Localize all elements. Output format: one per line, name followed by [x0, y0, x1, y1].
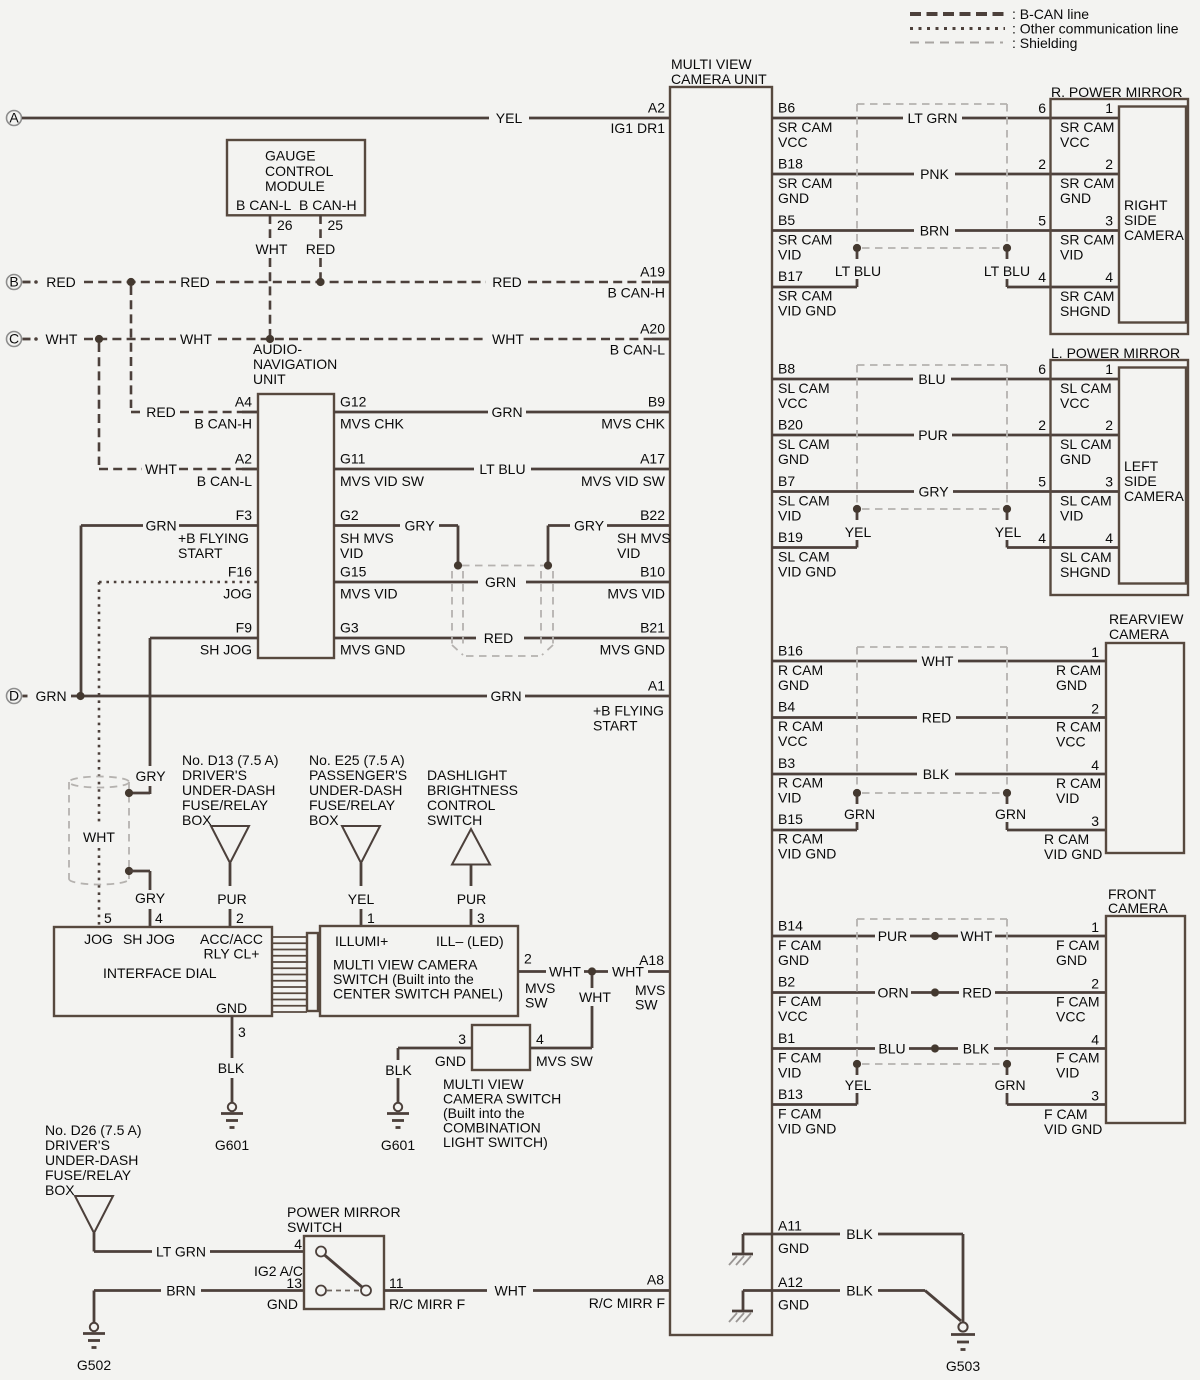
- fuse D13 text: [182, 752, 279, 828]
- svg-text:MVS SW: MVS SW: [536, 1053, 594, 1069]
- svg-text:F CAM: F CAM: [1056, 937, 1100, 953]
- svg-text:A20: A20: [640, 321, 665, 337]
- svg-text:1: 1: [1091, 644, 1099, 660]
- svg-text:SR CAM: SR CAM: [778, 175, 832, 191]
- svg-text:BLK: BLK: [218, 1060, 245, 1076]
- ground G502: [77, 1323, 111, 1373]
- svg-text:GRN: GRN: [35, 688, 66, 704]
- front pin numbers: [1091, 919, 1099, 1104]
- svg-text:G15: G15: [340, 564, 367, 580]
- ground G601 interface dial: [215, 1103, 249, 1153]
- svg-text:MODULE: MODULE: [265, 178, 325, 194]
- wire B7 GRY: [772, 484, 1119, 500]
- wire B5 BRN: [772, 223, 1119, 239]
- pin A18 MVS SW: [635, 952, 665, 1013]
- svg-text:BLK: BLK: [385, 1062, 412, 1078]
- pin G15 label: [340, 564, 398, 602]
- wire B22 shield drain GRY: [548, 518, 670, 563]
- wire C WHT B-CAN: [23, 331, 671, 347]
- svg-text:GRN: GRN: [485, 574, 516, 590]
- svg-text:WHT: WHT: [492, 331, 524, 347]
- svg-text:MULTI VIEW: MULTI VIEW: [671, 56, 752, 72]
- comb switch text: [443, 1076, 561, 1150]
- svg-text:A18: A18: [639, 952, 664, 968]
- svg-text:B3: B3: [778, 755, 795, 771]
- svg-text:RED: RED: [146, 404, 176, 420]
- junction B x131: [127, 278, 135, 286]
- svg-text:VID: VID: [778, 246, 801, 262]
- svg-text:A17: A17: [640, 451, 665, 467]
- svg-text:VCC: VCC: [778, 1008, 808, 1024]
- pins B14 B2 B1 B13 labels: [778, 918, 836, 1137]
- svg-text:WHT: WHT: [256, 241, 288, 257]
- svg-text:B8: B8: [778, 361, 795, 377]
- pin 5 number: [104, 910, 112, 926]
- pin B22 SH MVS VID: [617, 507, 671, 561]
- svg-text:VCC: VCC: [778, 395, 808, 411]
- svg-text:VID GND: VID GND: [778, 846, 836, 862]
- junction shield RV left: [853, 789, 861, 797]
- pin B10 MVS VID: [607, 564, 665, 602]
- pin G2 label: [340, 507, 394, 561]
- splice B2: [931, 988, 939, 996]
- svg-text:B18: B18: [778, 156, 803, 172]
- svg-text:5: 5: [104, 910, 112, 926]
- wire BRN to G502: [94, 1283, 304, 1324]
- svg-text:WHT: WHT: [549, 964, 581, 980]
- svg-text:R. POWER MIRROR: R. POWER MIRROR: [1051, 84, 1182, 100]
- wire B14 PUR-WHT: [772, 928, 1106, 944]
- junction shield left: [454, 561, 462, 569]
- junction D x80: [76, 692, 84, 700]
- svg-text:MVS VID: MVS VID: [607, 586, 665, 602]
- fuse D26 text: [45, 1122, 142, 1198]
- svg-text:SR CAM: SR CAM: [1060, 175, 1114, 191]
- svg-text:BLK: BLK: [963, 1041, 990, 1057]
- svg-text:B17: B17: [778, 268, 803, 284]
- svg-text:UNDER-DASH: UNDER-DASH: [309, 782, 402, 798]
- svg-text:R CAM: R CAM: [778, 831, 823, 847]
- svg-text:CAMERA: CAMERA: [1124, 488, 1185, 504]
- wire A YEL to A2: [22, 110, 670, 126]
- multi view camera unit box: [670, 87, 772, 1335]
- svg-text:3: 3: [1105, 213, 1113, 229]
- switch contact pin11: [361, 1286, 371, 1296]
- junction shield F right: [1003, 1060, 1011, 1068]
- splice B14: [931, 932, 939, 940]
- wire F pin3 GRN: [994, 1068, 1106, 1105]
- wire RV pin3 GRN: [995, 797, 1106, 830]
- svg-text:1: 1: [1091, 919, 1099, 935]
- pin 4 IG2 A/C labels: [254, 1236, 303, 1279]
- pin G11 label: [340, 451, 425, 490]
- svg-text:RLY CL+: RLY CL+: [204, 946, 260, 962]
- svg-text:PUR: PUR: [217, 891, 247, 907]
- svg-text:No. D13 (7.5 A): No. D13 (7.5 A): [182, 752, 279, 768]
- svg-text:GRN: GRN: [844, 806, 875, 822]
- svg-text:B5: B5: [778, 212, 795, 228]
- left side camera pin numbers: [1105, 361, 1113, 546]
- svg-text:GRY: GRY: [135, 768, 166, 784]
- svg-text:G2: G2: [340, 507, 359, 523]
- multi view camera unit label: [671, 56, 767, 87]
- front camera title: [1108, 886, 1169, 916]
- pins B8 B20 B7 B19 labels: [778, 361, 836, 580]
- svg-text:WHT: WHT: [83, 829, 115, 845]
- svg-text:GND: GND: [1056, 952, 1087, 968]
- svg-text:SH MVS: SH MVS: [340, 530, 394, 546]
- svg-text:R CAM: R CAM: [1056, 662, 1101, 678]
- pin 4 number: [155, 910, 163, 926]
- svg-text:LIGHT SWITCH): LIGHT SWITCH): [443, 1134, 548, 1150]
- svg-text:R/C MIRR F: R/C MIRR F: [589, 1295, 665, 1311]
- junction shield F left: [853, 1060, 861, 1068]
- pin A4 label: [194, 394, 252, 432]
- interface dial GND pin 3 wire BLK: [218, 1016, 246, 1103]
- svg-text:VID: VID: [1056, 790, 1079, 806]
- svg-text:26: 26: [277, 217, 293, 233]
- svg-text:FUSE/RELAY: FUSE/RELAY: [182, 797, 269, 813]
- wire B CAN-L drop x99 WHT: [99, 343, 258, 477]
- svg-text:SL CAM: SL CAM: [1060, 380, 1112, 396]
- wire B3 BLK: [772, 766, 1106, 782]
- svg-text:GND: GND: [778, 190, 809, 206]
- svg-text:B CAN-H: B CAN-H: [194, 416, 252, 432]
- svg-text:START: START: [178, 545, 223, 561]
- gauge pin 26 WHT dashed wire: [256, 215, 293, 335]
- svg-text:BLK: BLK: [923, 766, 950, 782]
- svg-text:F16: F16: [228, 564, 252, 580]
- svg-text:BLK: BLK: [846, 1283, 873, 1299]
- svg-text:2: 2: [1105, 417, 1113, 433]
- svg-text:SR CAM: SR CAM: [778, 288, 832, 304]
- svg-text:GRN: GRN: [490, 688, 521, 704]
- svg-text:YEL: YEL: [995, 524, 1022, 540]
- svg-text:B14: B14: [778, 918, 803, 934]
- svg-text:F9: F9: [236, 620, 253, 636]
- junction shield L right: [1003, 505, 1011, 513]
- rearview camera box: [1106, 643, 1184, 853]
- audio-navigation unit label: [253, 341, 337, 387]
- power mirror switch box: [304, 1236, 384, 1309]
- wire pin11 WHT to A8: [384, 1283, 670, 1299]
- svg-text:GND: GND: [778, 677, 809, 693]
- wire F9 SH JOG: [128, 638, 258, 794]
- svg-text:VCC: VCC: [1060, 395, 1090, 411]
- connector hatch: [272, 933, 318, 1012]
- chassis ground A12: [729, 1311, 753, 1322]
- svg-text:G3: G3: [340, 620, 359, 636]
- svg-text:GRY: GRY: [574, 518, 605, 534]
- rearview camera title: [1109, 611, 1184, 642]
- svg-text:PUR: PUR: [457, 891, 487, 907]
- svg-text:1: 1: [367, 910, 375, 926]
- wire R mirror pin4 LT BLU: [984, 252, 1119, 287]
- svg-text:B13: B13: [778, 1086, 803, 1102]
- svg-text:LEFT: LEFT: [1124, 458, 1159, 474]
- svg-text:BLU: BLU: [878, 1041, 905, 1057]
- legend B-CAN line sample: [910, 6, 1089, 22]
- junction shield right: [544, 561, 552, 569]
- svg-text:VID: VID: [778, 1064, 801, 1080]
- svg-text:B9: B9: [648, 394, 665, 410]
- wire B4 RED: [772, 710, 1106, 726]
- svg-text:UNDER-DASH: UNDER-DASH: [182, 782, 275, 798]
- svg-text:YEL: YEL: [845, 1077, 872, 1093]
- svg-text:GRY: GRY: [404, 518, 435, 534]
- pin F3 label: [178, 507, 252, 561]
- chassis ground A11: [729, 1254, 753, 1265]
- wire B20 PUR: [772, 427, 1119, 443]
- svg-text:WHT: WHT: [46, 331, 78, 347]
- svg-text:GND: GND: [216, 1000, 247, 1016]
- gauge control module box: [227, 140, 365, 215]
- junction shield R left: [853, 244, 861, 252]
- svg-text:L. POWER MIRROR: L. POWER MIRROR: [1051, 345, 1180, 361]
- node B: [7, 274, 22, 290]
- svg-text:1: 1: [1105, 100, 1113, 116]
- svg-text:DRIVER'S: DRIVER'S: [182, 767, 247, 783]
- svg-text:F CAM: F CAM: [1056, 1050, 1100, 1066]
- svg-text:BOX: BOX: [182, 812, 212, 828]
- svg-text:WHT: WHT: [145, 461, 177, 477]
- svg-text:RED: RED: [306, 241, 336, 257]
- right side camera pin numbers: [1105, 100, 1113, 285]
- svg-text:4: 4: [1105, 269, 1113, 285]
- svg-text:DRIVER'S: DRIVER'S: [45, 1137, 110, 1153]
- svg-text:WHT: WHT: [922, 653, 954, 669]
- wire B1 BLU-BLK: [772, 1041, 1106, 1057]
- svg-text:GRY: GRY: [135, 890, 166, 906]
- svg-text:FUSE/RELAY: FUSE/RELAY: [45, 1167, 132, 1183]
- node C: [7, 331, 22, 347]
- svg-text:B CAN-H: B CAN-H: [299, 197, 357, 213]
- svg-text:VID GND: VID GND: [1044, 846, 1102, 862]
- svg-text:F CAM: F CAM: [778, 937, 822, 953]
- svg-text:B CAN-H: B CAN-H: [607, 285, 665, 301]
- svg-text:VID GND: VID GND: [778, 564, 836, 580]
- svg-text:3: 3: [1091, 813, 1099, 829]
- pin A12 GND wire BLK: [743, 1274, 925, 1313]
- svg-text:VID GND: VID GND: [778, 303, 836, 319]
- svg-text:CENTER SWITCH PANEL): CENTER SWITCH PANEL): [333, 986, 503, 1002]
- switch contact pin4: [316, 1247, 326, 1257]
- svg-text:VCC: VCC: [1056, 1009, 1086, 1025]
- R mirror pin texts: [1060, 119, 1114, 319]
- svg-text:4: 4: [1038, 269, 1046, 285]
- pin A11 GND wire BLK: [743, 1218, 963, 1257]
- junction B x320: [316, 278, 324, 286]
- wire D GRN to A1: [23, 688, 671, 704]
- svg-text:CONTROL: CONTROL: [427, 797, 496, 813]
- svg-text:DASHLIGHT: DASHLIGHT: [427, 767, 508, 783]
- wire B18 PNK: [772, 166, 1119, 182]
- svg-text:GND: GND: [778, 1240, 809, 1256]
- svg-text:FUSE/RELAY: FUSE/RELAY: [309, 797, 396, 813]
- svg-text:GRN: GRN: [491, 404, 522, 420]
- pin 13 GND labels: [267, 1275, 302, 1312]
- svg-text:G601: G601: [215, 1137, 249, 1153]
- svg-text:3: 3: [238, 1024, 246, 1040]
- svg-text:POWER MIRROR: POWER MIRROR: [287, 1204, 401, 1220]
- svg-text:R CAM: R CAM: [1044, 831, 1089, 847]
- svg-text:R CAM: R CAM: [1056, 719, 1101, 735]
- junction cylinder bottom GRY: [125, 867, 133, 875]
- wire D26 LT GRN: [94, 1233, 304, 1260]
- svg-text:GRN: GRN: [994, 1077, 1025, 1093]
- node D: [7, 688, 22, 704]
- fuse E25 symbol: [342, 826, 380, 863]
- svg-text:A2: A2: [648, 100, 665, 116]
- svg-text:VID GND: VID GND: [1044, 1121, 1102, 1137]
- wire L mirror pin4 YEL: [995, 513, 1119, 548]
- comb switch pin 3 wire: [385, 1031, 472, 1103]
- svg-text:BOX: BOX: [45, 1182, 75, 1198]
- pin A2 label: [197, 451, 252, 490]
- svg-text:GND: GND: [778, 1297, 809, 1313]
- svg-text:WHT: WHT: [579, 989, 611, 1005]
- svg-text:RED: RED: [180, 274, 210, 290]
- svg-text:3: 3: [458, 1031, 466, 1047]
- wire F16 JOG dotted: [99, 582, 258, 927]
- pin A1 +B FLYING START: [593, 678, 665, 734]
- svg-text:A8: A8: [647, 1272, 664, 1288]
- svg-text:3: 3: [1105, 474, 1113, 490]
- svg-text:3: 3: [477, 910, 485, 926]
- svg-text:VID: VID: [1060, 508, 1083, 524]
- junction C x99: [95, 335, 103, 343]
- interface dial box: [54, 927, 272, 1016]
- svg-text:RED: RED: [484, 630, 514, 646]
- svg-text:2: 2: [1091, 976, 1099, 992]
- svg-text:B4: B4: [778, 699, 795, 715]
- svg-text:BRN: BRN: [166, 1283, 196, 1299]
- wire WHT down to comb switch: [579, 975, 611, 1048]
- svg-text:BRIGHTNESS: BRIGHTNESS: [427, 782, 518, 798]
- svg-text:GRN: GRN: [145, 518, 176, 534]
- pin 11 labels: [389, 1275, 465, 1312]
- svg-text:PNK: PNK: [920, 166, 949, 182]
- ground G601 comb switch: [381, 1103, 415, 1153]
- svg-text:B15: B15: [778, 811, 803, 827]
- fuse D26 symbol: [75, 1196, 113, 1233]
- svg-text:+B FLYING: +B FLYING: [178, 530, 249, 546]
- svg-text:RED: RED: [962, 985, 992, 1001]
- left side camera text: [1124, 458, 1185, 504]
- svg-text:R CAM: R CAM: [778, 774, 823, 790]
- svg-text:ILLUMI+: ILLUMI+: [335, 933, 388, 949]
- wire D13 PUR: [217, 863, 247, 927]
- svg-text:MVS CHK: MVS CHK: [340, 416, 404, 432]
- svg-text:B10: B10: [640, 564, 665, 580]
- wire F3 GRN +B flying start: [81, 518, 258, 697]
- wire A11 down to G503: [962, 1234, 965, 1322]
- svg-text:25: 25: [328, 217, 344, 233]
- svg-text:RED: RED: [46, 274, 76, 290]
- wire A12 diagonal to G503: [925, 1291, 961, 1322]
- front camera box: [1106, 916, 1185, 1123]
- label GRY top: [135, 768, 166, 784]
- svg-text:F CAM: F CAM: [778, 993, 822, 1009]
- rearview pin numbers: [1091, 644, 1099, 829]
- svg-text:R CAM: R CAM: [778, 718, 823, 734]
- MVS switch pin 2 wire WHT: [518, 951, 670, 1011]
- svg-text:NAVIGATION: NAVIGATION: [253, 356, 337, 372]
- shielding cylinder WHT: [69, 777, 129, 885]
- node A: [7, 110, 22, 126]
- R power mirror box: [1051, 99, 1189, 334]
- junction shield L left: [853, 505, 861, 513]
- pin 2 number: [236, 910, 244, 926]
- svg-text:RED: RED: [492, 274, 522, 290]
- svg-text:B21: B21: [640, 620, 665, 636]
- svg-text:VCC: VCC: [1060, 134, 1090, 150]
- wire B13 YEL drain: [772, 1068, 871, 1105]
- wire E25 YEL: [348, 863, 375, 927]
- R mirror pin numbers: [1038, 100, 1046, 285]
- svg-text:B CAN-L: B CAN-L: [236, 197, 291, 213]
- pin A19 B CAN-H: [607, 264, 665, 301]
- svg-text:F3: F3: [236, 507, 253, 523]
- junction shield R right: [1003, 244, 1011, 252]
- svg-text:2: 2: [524, 951, 532, 967]
- junction C x270: [266, 335, 274, 343]
- svg-text:WHT: WHT: [961, 928, 993, 944]
- svg-text:START: START: [593, 718, 638, 734]
- svg-text:A1: A1: [648, 678, 665, 694]
- svg-text:UNDER-DASH: UNDER-DASH: [45, 1152, 138, 1168]
- svg-text:IG1 DR1: IG1 DR1: [611, 120, 666, 136]
- pins B16 B4 B3 B15 labels: [778, 643, 836, 862]
- svg-text:F CAM: F CAM: [778, 1106, 822, 1122]
- svg-text:SWITCH: SWITCH: [427, 812, 482, 828]
- svg-text:VID: VID: [1056, 1065, 1079, 1081]
- svg-text:GRN: GRN: [995, 806, 1026, 822]
- svg-text:GND: GND: [778, 451, 809, 467]
- dashlight switch text: [427, 767, 518, 828]
- svg-text:VID: VID: [778, 507, 801, 523]
- svg-text:VCC: VCC: [778, 134, 808, 150]
- audio-navigation unit box: [258, 394, 334, 658]
- svg-text:6: 6: [1038, 100, 1046, 116]
- svg-text:SIDE: SIDE: [1124, 473, 1157, 489]
- pin 3 number: [477, 910, 485, 926]
- svg-text:A2: A2: [235, 451, 252, 467]
- svg-text:D: D: [9, 688, 19, 704]
- svg-text:LT GRN: LT GRN: [907, 110, 957, 126]
- dashlight switch symbol: [452, 829, 490, 865]
- svg-text:R/C MIRR F: R/C MIRR F: [389, 1296, 465, 1312]
- svg-text:4: 4: [1038, 530, 1046, 546]
- pin A17 MVS VID SW: [581, 451, 666, 490]
- L power mirror box: [1051, 360, 1189, 595]
- svg-text:SL CAM: SL CAM: [778, 492, 830, 508]
- svg-text:GND: GND: [1056, 677, 1087, 693]
- svg-text:LT BLU: LT BLU: [835, 263, 881, 279]
- svg-text:CAMERA UNIT: CAMERA UNIT: [671, 71, 767, 87]
- fuse D13 symbol: [211, 826, 249, 863]
- wire G15-B10 GRN MVS VID: [334, 574, 670, 590]
- svg-text:VCC: VCC: [778, 733, 808, 749]
- switch contact pin13: [316, 1286, 326, 1296]
- pin B9 MVS CHK: [601, 394, 665, 432]
- svg-text:SR CAM: SR CAM: [1060, 288, 1114, 304]
- shielding tube around MVS VID wires: [452, 566, 553, 657]
- svg-text:B1: B1: [778, 1030, 795, 1046]
- wire B8 BLU: [772, 371, 1119, 387]
- svg-text:ORN: ORN: [877, 985, 908, 1001]
- wire G11-A17 LT BLU: [334, 461, 670, 477]
